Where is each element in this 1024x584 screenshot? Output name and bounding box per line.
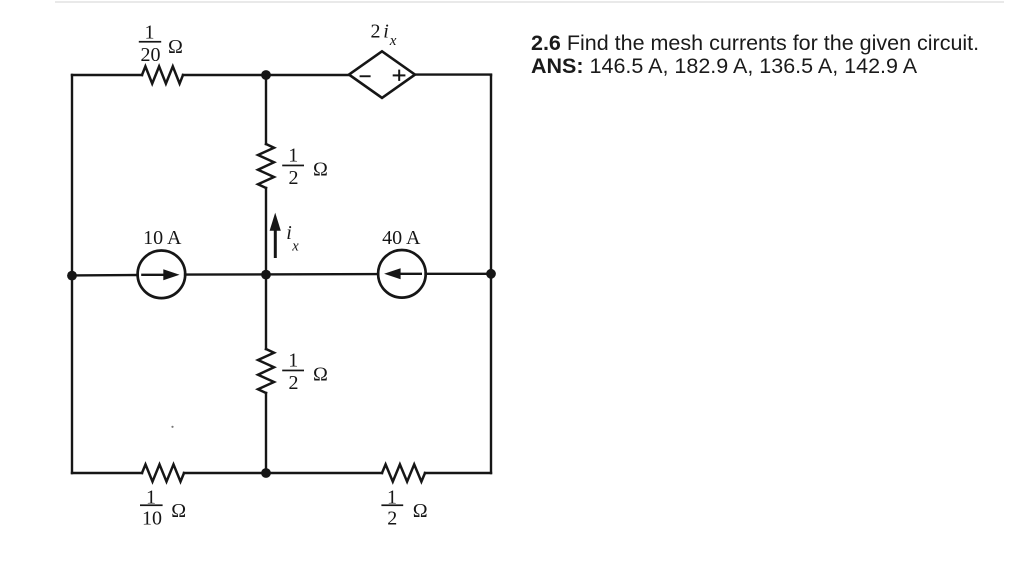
wire bottom-left segment bbox=[72, 472, 142, 474]
svg-text:2: 2 bbox=[289, 372, 299, 394]
svg-text:10: 10 bbox=[142, 507, 162, 529]
problem statement line 1 bbox=[531, 31, 979, 55]
wire middle-right segment bbox=[426, 273, 491, 275]
svg-text:i: i bbox=[286, 222, 292, 244]
wire bottom middle segment bbox=[184, 472, 382, 474]
svg-text:2: 2 bbox=[289, 167, 299, 189]
svg-text:10 A: 10 A bbox=[143, 227, 182, 249]
wire center vertical upper bbox=[265, 75, 267, 144]
svg-text:i: i bbox=[383, 21, 389, 43]
wire top-right segment bbox=[415, 73, 491, 76]
resistor 1/10 ohm bbox=[142, 464, 184, 481]
svg-text:2: 2 bbox=[371, 21, 381, 43]
current source I2 40A circle bbox=[378, 250, 426, 298]
separator hairline bbox=[55, 1, 1004, 3]
wire middle-center segment bbox=[185, 273, 378, 276]
wire top-left segment bbox=[72, 74, 142, 76]
svg-text:x: x bbox=[291, 238, 299, 254]
svg-text:1: 1 bbox=[288, 349, 298, 371]
svg-text:Ω: Ω bbox=[171, 500, 186, 522]
resistor 1/2 ohm upper bbox=[258, 144, 274, 188]
svg-text:Ω: Ω bbox=[168, 36, 183, 58]
node dot middle-left bbox=[67, 271, 77, 281]
wire top middle segment bbox=[183, 74, 349, 76]
node dot top-center bbox=[261, 70, 271, 80]
speck artifact bbox=[171, 426, 173, 428]
svg-text:x: x bbox=[389, 33, 397, 49]
resistor 1/20 ohm bbox=[142, 66, 183, 83]
svg-text:40 A: 40 A bbox=[382, 227, 421, 249]
svg-text:2: 2 bbox=[387, 507, 397, 529]
wire bottom-right segment bbox=[425, 472, 491, 474]
svg-text:20: 20 bbox=[141, 44, 161, 66]
current arrow ix bbox=[274, 229, 277, 258]
svg-text:1: 1 bbox=[145, 21, 155, 43]
node dot bottom-center bbox=[261, 468, 271, 478]
arrow of 40A source bbox=[398, 273, 422, 275]
resistor 1/2 ohm lower bbox=[258, 349, 274, 393]
svg-text:Ω: Ω bbox=[413, 500, 428, 522]
node dot middle-right bbox=[486, 269, 496, 279]
svg-text:Ω: Ω bbox=[313, 159, 328, 181]
polarity minus of U1 bbox=[360, 75, 371, 77]
arrow of 10A source bbox=[141, 274, 167, 276]
wire middle-left segment bbox=[72, 274, 138, 277]
node dot middle-center bbox=[261, 270, 271, 280]
svg-text:Ω: Ω bbox=[313, 364, 328, 386]
wire center vertical bottom bbox=[265, 393, 267, 473]
wire center vertical middle bbox=[265, 188, 267, 349]
resistor 1/2 ohm bottom-right bbox=[382, 464, 425, 481]
wire left vertical bbox=[71, 75, 73, 473]
current source I1 10A circle bbox=[138, 250, 186, 298]
svg-text:1: 1 bbox=[288, 144, 298, 166]
wire right vertical bbox=[490, 75, 492, 473]
answer line bbox=[531, 54, 917, 78]
dependent source U1 diamond 2ix bbox=[349, 51, 415, 98]
polarity plus of U1 bbox=[393, 74, 406, 76]
